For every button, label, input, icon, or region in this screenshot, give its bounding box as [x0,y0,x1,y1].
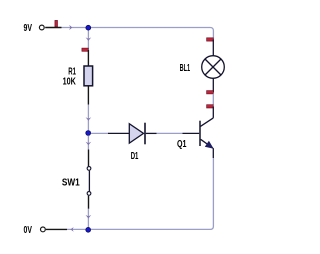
diode D1 [108,123,157,145]
node C (junction) [86,227,91,232]
wire: node B to switch SW1 [86,136,92,150]
voltage indicator at BL1 bottom pin [207,91,214,94]
svg-text:9V: 9V [24,23,33,34]
voltage indicator at R1 top pin [82,48,88,51]
voltage indicator at Q1 collector pin [207,105,214,108]
svg-text:Q1: Q1 [177,139,187,150]
terminal 0V [41,227,46,232]
wire: SW1 to node C [86,209,92,227]
switch SW1 [87,150,91,209]
wire: D1 to Q1 base [157,132,183,134]
svg-text:BL1: BL1 [180,63,191,74]
wire: BL1 to Q1 collector [212,94,214,105]
svg-text:SW1: SW1 [62,177,80,188]
transistor Q1 [183,107,214,159]
terminal 9V [39,25,44,30]
wire: node A to resistor R1 [86,31,92,50]
wire: 9V terminal to node A [45,25,86,30]
wire: R1 to node B [86,105,92,131]
wire: node C to 0V terminal [46,227,86,232]
voltage indicator at BL1 top pin [207,38,214,41]
wire: node A to lamp BL1 (top rail) [91,28,213,40]
node A (junction) [86,25,91,30]
resistor R1 [84,50,93,105]
wire: Q1 emitter to node C (bottom rail) [91,158,213,229]
wire: node B to diode D1 [91,132,109,134]
voltage indicator at 9V terminal [55,20,58,27]
svg-text:0V: 0V [24,225,33,236]
node B (junction) [86,131,91,136]
svg-text:10K: 10K [63,77,77,88]
svg-text:D1: D1 [131,151,139,162]
lamp BL1 [202,40,225,93]
